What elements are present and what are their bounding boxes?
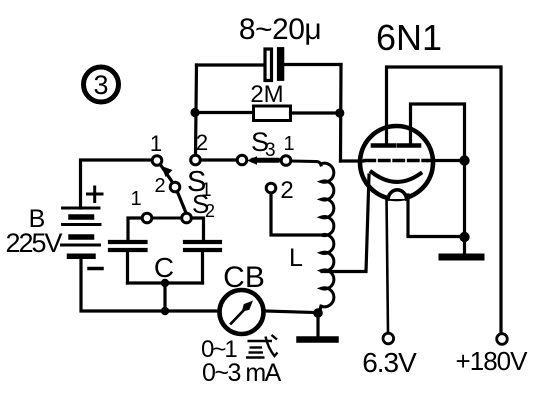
svg-text:2: 2 xyxy=(205,201,215,221)
svg-text:8~20μ: 8~20μ xyxy=(239,13,321,46)
svg-text:C: C xyxy=(154,252,174,283)
svg-text:3: 3 xyxy=(93,70,108,100)
svg-text:225V: 225V xyxy=(5,228,62,258)
svg-text:+180V: +180V xyxy=(456,346,529,376)
svg-text:2: 2 xyxy=(154,175,165,197)
svg-text:2: 2 xyxy=(196,130,208,155)
svg-text:1: 1 xyxy=(283,133,294,155)
svg-text:2M: 2M xyxy=(250,81,283,108)
svg-text:CB: CB xyxy=(223,261,265,294)
svg-text:6.3V: 6.3V xyxy=(362,347,417,378)
svg-text:6N1: 6N1 xyxy=(376,17,442,58)
svg-text:2: 2 xyxy=(280,177,293,204)
svg-text:1: 1 xyxy=(150,131,162,156)
svg-text:3: 3 xyxy=(265,140,276,161)
svg-text:0~3 mA: 0~3 mA xyxy=(202,359,282,387)
svg-text:L: L xyxy=(289,244,303,272)
svg-text:1: 1 xyxy=(130,188,141,210)
